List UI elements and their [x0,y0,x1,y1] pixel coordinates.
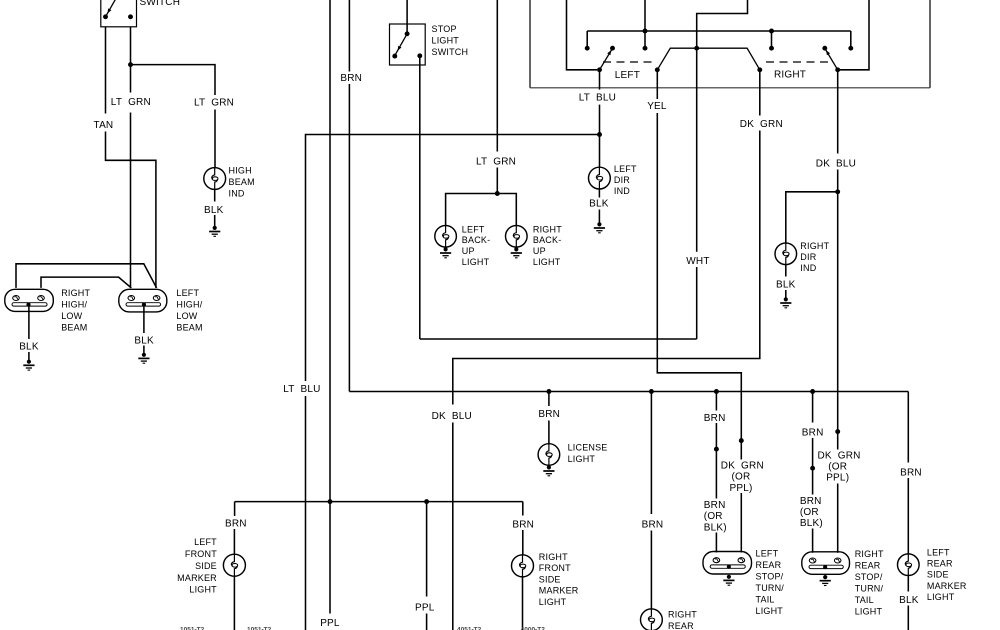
svg-text:BLK): BLK) [704,522,727,533]
centre bar [657,48,760,70]
ground (left rear light) [723,575,734,586]
wire left rear side marker to bottom [907,606,909,630]
junction dot right dir ind branch [835,189,840,194]
label RIGHT REAR STOP/TURN/TAIL LIGHT [855,549,884,617]
wire PPL 1 below junction [329,502,331,614]
svg-text:LEFT: LEFT [176,288,199,298]
label RIGHT (turn signal) [774,70,806,81]
svg-text:RIGHT: RIGHT [855,549,884,559]
svg-text:RIGHT: RIGHT [774,70,806,81]
junction dot LT GRN branch [128,62,133,67]
wire LT GRN to left headlamp [130,113,132,288]
dimmer switch contact dot right [128,14,133,19]
dashed link right [766,61,831,63]
label BLK (left headlamp) [134,335,154,346]
label LICENSE LIGHT [568,442,608,464]
svg-text:LEFT: LEFT [194,537,217,547]
svg-text:SIDE: SIDE [195,561,217,571]
wire right front side marker drop [522,502,524,516]
svg-text:(OR: (OR [800,507,819,518]
svg-text:DK BLU: DK BLU [816,159,856,170]
wire below right dir ind [785,265,787,277]
label LT BLU (lower left) [283,384,320,395]
svg-text:BRN: BRN [800,496,822,507]
lamp LEFT REAR SIDE MARKER [898,554,920,576]
svg-text:REAR: REAR [927,559,953,569]
ground (left headlamp) [138,353,149,364]
svg-text:HIGH: HIGH [229,166,252,176]
wire license light drop [548,392,550,407]
svg-text:LT BLU: LT BLU [579,93,616,104]
svg-text:IND: IND [614,186,630,196]
label LEFT HIGH/LOW BEAM [176,288,202,333]
left switch throw contact dot [610,46,615,51]
contact dot rail left [585,46,590,51]
junction dot right rear BRN [810,466,815,471]
wire feed to left pivot [567,0,598,70]
junction dot left rear stop [714,389,719,394]
label DK GRN (OR PPL) right [818,450,861,483]
label BRN (license) [538,409,560,420]
svg-text:DK GRN: DK GRN [818,450,861,461]
label DK BLU (lower) [432,411,472,422]
svg-text:PPL: PPL [320,618,340,629]
svg-text:WHT: WHT [686,256,709,267]
lamp RIGHT BACK-UP LIGHT [506,226,528,248]
svg-text:PPL): PPL) [826,473,849,484]
label BLK (left rear side marker) [899,595,919,606]
headlamp dimmer switch (top, partially cut off) [101,0,137,27]
junction dot license light [546,389,551,394]
junction dot WHT on bar [694,46,699,51]
label BLK (left dir ind) [589,199,609,210]
left switch arm [600,50,612,70]
stop light switch lower contact dot [392,54,397,59]
rail stub right [850,31,852,46]
wire branch to high beam ind [131,65,216,95]
wire LT GRN back-up feed [496,0,498,152]
svg-text:REAR: REAR [668,621,694,630]
svg-text:LIGHT: LIGHT [927,592,955,602]
svg-text:BLK: BLK [19,341,39,352]
svg-text:BEAM: BEAM [229,177,255,187]
wire TAN below label to bend [106,132,156,288]
svg-text:LEFT: LEFT [614,164,637,174]
wire left rear BRN mid [715,423,717,447]
wire corner to left rear side marker [907,392,909,463]
label RIGHT REAR (clipped) [668,609,697,630]
wire below junction [837,434,839,450]
svg-text:RIGHT: RIGHT [668,609,697,619]
contact dot rail mid-right [769,46,774,51]
wire WHT below label [696,267,698,339]
svg-text:LEFT: LEFT [756,549,779,559]
svg-text:BEAM: BEAM [61,322,87,332]
right switch throw contact dot [822,46,827,51]
svg-text:BRN: BRN [900,467,922,478]
svg-text:UP: UP [533,246,546,256]
svg-text:LIGHT: LIGHT [432,35,460,45]
svg-text:YEL: YEL [647,101,667,112]
svg-text:LIGHT: LIGHT [568,454,596,464]
svg-text:MARKER: MARKER [177,573,217,583]
wire LT BLU to junction [599,105,601,135]
label DK GRN [740,119,783,130]
left switch pivot dot [597,67,602,72]
wire to ground (high beam ind) [214,215,216,226]
svg-text:LOW: LOW [176,311,197,321]
rail stub mid-right [771,31,773,46]
svg-text:BRN: BRN [225,519,247,530]
wire right rear BRN lower [812,470,814,494]
junction dot right rear stop [810,389,815,394]
label BLK (high beam ind) [204,205,224,216]
label TAN [94,120,114,131]
junction dot rail mid-right [769,29,774,34]
lamp LEFT BACK-UP LIGHT [435,226,457,248]
svg-text:LT GRN: LT GRN [476,157,516,168]
wire below right headlamp [28,305,30,339]
svg-text:LIGHT: LIGHT [462,257,490,267]
wire front side marker line [235,501,523,503]
headlamp crossover wire B [41,277,131,288]
left high/low beam headlamp [119,289,167,312]
label DK GRN (OR PPL) left [721,461,764,494]
junction dot back-up branch [495,191,500,196]
svg-text:LICENSE: LICENSE [568,442,608,452]
junction dot PPL 2 [424,499,429,504]
svg-text:LOW: LOW [61,311,82,321]
centre bar right pivot dot [757,67,762,72]
svg-text:BEAM: BEAM [176,322,202,332]
stop light switch upper contact dot [405,31,410,36]
junction dot rail feed [643,29,648,34]
svg-text:BLK: BLK [134,335,154,346]
svg-text:REAR: REAR [855,561,881,571]
label BRN (right rear) [642,519,664,530]
svg-text:STOP/: STOP/ [855,572,883,582]
label RIGHT HIGH/LOW BEAM [61,288,90,333]
wire PPL 2 drop [426,502,428,597]
ground (right dir ind) [780,297,791,308]
svg-text:HIGH/: HIGH/ [176,299,202,309]
label BRN (left front marker) [225,519,247,530]
svg-text:SWITCH: SWITCH [432,47,469,57]
wire to ground (right dir ind) [785,290,787,298]
svg-text:LT BLU: LT BLU [283,384,320,395]
wire right front marker to lamp [522,530,524,555]
dashed link left [603,61,654,63]
junction dot YEL/DK GRN (or PPL) [739,438,744,443]
svg-text:LIGHT: LIGHT [533,257,561,267]
svg-text:TAIL: TAIL [756,595,775,605]
junction dot right rear [649,389,654,394]
label LEFT REAR STOP/TURN/TAIL LIGHT [756,549,785,617]
turn signal switch box bottom [530,87,930,89]
ground (left dir ind) [594,222,605,233]
svg-text:4051-T2: 4051-T2 [457,627,482,630]
svg-text:BLK: BLK [899,595,919,606]
svg-text:RIGHT: RIGHT [539,552,568,562]
wire left rear BRN lower [715,451,717,498]
svg-text:(OR: (OR [732,472,751,483]
wire TAN vertical from dimmer switch [105,27,107,114]
svg-text:DK GRN: DK GRN [740,119,783,130]
svg-text:BACK-: BACK- [533,235,562,245]
svg-text:LT GRN: LT GRN [194,98,234,109]
label LEFT (turn signal) [615,70,640,81]
svg-text:FRONT: FRONT [539,563,571,573]
wire right rear BRN drop [812,392,814,423]
svg-text:BLK): BLK) [800,518,823,529]
wire LT BLU from left pivot [599,70,601,90]
svg-text:BRN: BRN [704,413,726,424]
wire DK GRN from centre bar [759,70,761,116]
junction dot DK BLU/DK GRN (or PPL) right [835,429,840,434]
wire to ground (right headlamp) [28,352,30,360]
headlamp crossover wire A [16,264,157,288]
wire to high beam ind lamp [214,110,216,168]
contact dot rail right [848,46,853,51]
svg-text:TAIL: TAIL [855,595,874,605]
wire below left front marker [233,576,235,630]
wire BRN continues to tail light feed [348,84,350,392]
svg-text:LT GRN: LT GRN [111,97,151,108]
label BRN (left rear) [704,413,726,424]
svg-text:LIGHT: LIGHT [756,606,784,616]
svg-text:DIR: DIR [614,175,630,185]
svg-text:LEFT: LEFT [462,224,485,234]
ground (right back-up) [511,247,522,258]
label BRN (right rear stop) [802,427,824,438]
wire LT BLU lower continues [305,396,307,630]
ground (left back-up) [440,247,451,258]
label HIGH BEAM IND [229,166,255,199]
wire below left headlamp [143,306,145,333]
label LT BLU [579,93,616,104]
svg-text:BRN: BRN [704,500,726,511]
svg-text:LIGHT: LIGHT [189,585,217,595]
dimmer switch contact dot left [103,14,108,19]
label DK BLU [816,159,856,170]
contact dot rail feed [643,46,648,51]
svg-text:BLK: BLK [776,280,796,291]
svg-text:IND: IND [229,189,245,199]
stop light switch box [390,24,426,65]
label BLK (right dir ind) [776,280,796,291]
svg-text:RIGHT: RIGHT [533,224,562,234]
lamp HIGH BEAM IND [204,168,226,190]
centre bar left pivot dot [655,67,660,72]
dimmer switch lever [106,0,117,17]
right switch pivot dot [835,67,840,72]
svg-text:LEFT: LEFT [615,70,640,81]
label YEL [647,101,667,112]
wire to left rear side marker lamp [907,478,909,554]
label RIGHT DIR IND [800,241,829,273]
svg-text:SIDE: SIDE [539,574,561,584]
wire to left rear light right terminal [740,443,742,460]
lamp LICENSE LIGHT [538,444,560,466]
svg-text:RIGHT: RIGHT [800,241,829,251]
wire DK BLU from right pivot [837,70,839,154]
wire PPL feed vertical [329,0,331,502]
wire feed to right pivot [840,0,869,70]
svg-text:DIR: DIR [800,252,816,262]
svg-text:HIGH/: HIGH/ [61,299,87,309]
lamp RIGHT DIR IND [775,243,797,265]
wire DK BLU below label [837,170,839,192]
label BLK (right headlamp) [19,341,39,352]
wire left front marker to lamp [233,529,235,554]
right high/low beam headlamp [5,289,54,311]
ground (right headlamp) [23,360,34,371]
label PPL (1) [320,618,340,629]
right rear stop/turn/tail light [802,552,850,575]
wire below right front marker [522,577,524,630]
svg-text:FRONT: FRONT [185,549,217,559]
svg-text:PPL: PPL [415,603,435,614]
wire right rear to lamp [650,531,652,609]
wire license light to lamp [548,421,550,444]
turn signal switch box (top cut off) [530,0,930,88]
lamp LEFT FRONT SIDE MARKER [223,554,245,576]
wire back-up branch horizontal [446,194,517,226]
svg-text:1051-T2: 1051-T2 [180,627,205,630]
label BRN (left rear side marker) [900,467,922,478]
wire LT BLU to lamp [599,135,601,168]
wire LT GRN below label [496,168,498,194]
svg-text:UP: UP [462,246,475,256]
wire DK BLU continues down [837,192,839,430]
label LT GRN (left) [111,97,151,108]
svg-text:TURN/: TURN/ [756,583,785,593]
stop light switch output dot [417,53,422,58]
svg-text:LEFT: LEFT [927,548,950,558]
svg-text:4000-T2: 4000-T2 [521,627,546,630]
svg-text:LIGHT: LIGHT [855,607,883,617]
svg-text:MARKER: MARKER [539,586,579,596]
wire BRN feed from top [348,0,350,72]
rail stub left [586,31,588,46]
svg-text:DK BLU: DK BLU [432,411,472,422]
label BRN (right front marker) [512,519,534,530]
wire WHT vertical [696,48,698,252]
lamp LEFT DIR IND [589,167,611,189]
wire feed to stop light switch [406,0,408,34]
svg-text:(OR: (OR [828,462,847,473]
label SWITCH (clipped) [140,0,181,8]
clipped caption fragments at bottom edge [180,627,545,630]
wire YEL from centre bar [656,70,658,99]
svg-text:BLK: BLK [589,199,609,210]
svg-text:LIGHT: LIGHT [539,597,567,607]
wire feed to rail [644,0,646,48]
wire stop switch to WHT (horizontal) [420,338,697,340]
wire BRN tail light feed line [349,391,908,393]
svg-text:(OR: (OR [704,511,723,522]
ground (right rear light) [820,575,831,586]
wire DK BLU lower vertical [452,423,454,630]
wire YEL down and across [657,113,741,439]
svg-text:MARKER: MARKER [927,581,967,591]
svg-text:IND: IND [800,263,816,273]
wire to ground (left headlamp) [143,346,145,354]
wire right rear BRN to light [812,529,814,553]
svg-text:BACK-: BACK- [462,235,491,245]
wire branch to right dir ind [786,192,838,243]
ground (high beam ind) [209,226,220,237]
label LT GRN (high beam ind) [194,98,234,109]
svg-text:BRN: BRN [642,519,664,530]
label RIGHT FRONT SIDE MARKER LIGHT [539,552,579,607]
svg-text:SIDE: SIDE [927,570,949,580]
label PPL (2) [415,603,435,614]
wire left rear turn to light [740,493,742,553]
svg-text:BRN: BRN [538,409,560,420]
svg-text:1051-T2: 1051-T2 [247,627,272,630]
svg-text:TURN/: TURN/ [855,584,884,594]
wire right rear BRN mid [812,438,814,466]
label STOP LIGHT SWITCH [432,24,469,57]
wire below left rear side marker [907,576,909,592]
junction dot left rear BRN [714,447,719,452]
wire WHT top feed step [697,0,748,46]
wire corner at LT BLU junction line [306,135,600,382]
svg-text:STOP: STOP [432,24,457,34]
wire DK GRN down and across [453,131,760,405]
junction dot PPL 1 [328,499,333,504]
ground (license light) [543,465,554,476]
wire PPL 2 to bottom [426,614,428,630]
svg-text:BLK: BLK [204,205,224,216]
wire left rear BRN to light [715,533,717,553]
wire right rear turn to light [837,484,839,553]
wire right rear drop [650,392,652,515]
wire below high beam ind [214,189,216,201]
svg-text:DK GRN: DK GRN [721,461,764,472]
svg-text:RIGHT: RIGHT [61,288,90,298]
label LEFT DIR IND [614,164,637,196]
turn signal rail [587,30,851,32]
wire left front side marker drop [234,502,236,516]
label BRN (OR BLK) left [704,500,727,533]
svg-text:REAR: REAR [756,560,782,570]
wire below left dir ind [598,189,600,198]
wire left rear BRN drop [715,392,717,411]
stop light switch lever [395,34,407,56]
svg-text:BRN: BRN [340,73,362,84]
label WHT [686,256,709,267]
label BRN (OR BLK) right [800,496,823,529]
svg-text:BRN: BRN [802,427,824,438]
left rear stop/turn/tail light [703,552,752,575]
label LEFT FRONT SIDE MARKER LIGHT [177,537,217,594]
label LEFT BACK-UP LIGHT [462,224,491,267]
svg-text:BRN: BRN [512,519,534,530]
label LEFT REAR SIDE MARKER LIGHT [927,548,967,603]
wire stop light switch output down [419,56,421,339]
svg-text:STOP/: STOP/ [756,572,784,582]
label BRN (top) [340,73,362,84]
svg-text:TAN: TAN [94,120,114,131]
svg-text:SWITCH: SWITCH [140,0,181,8]
wire LT GRN from dimmer switch [130,27,132,93]
label RIGHT BACK-UP LIGHT [533,224,562,267]
wire to ground (left dir ind) [598,210,600,223]
lamp RIGHT REAR (clipped) [641,609,663,630]
lamp RIGHT FRONT SIDE MARKER [512,555,534,577]
